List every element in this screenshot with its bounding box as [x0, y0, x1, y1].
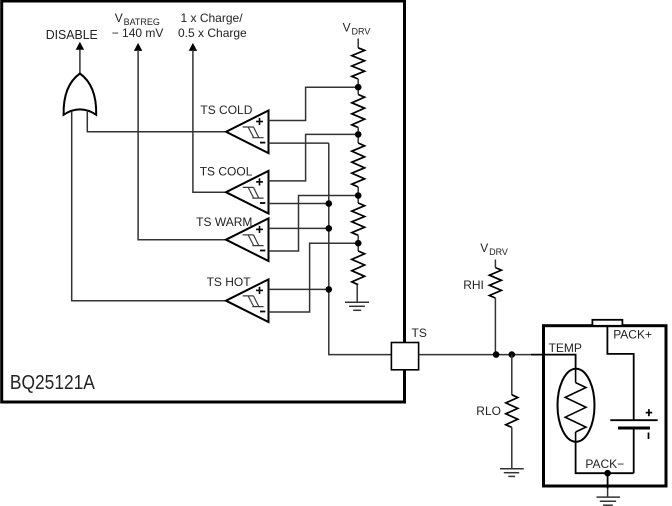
wire VDRV to ladder	[357, 39, 359, 48]
svg-text:DRV: DRV	[352, 27, 371, 37]
label 1 x Charge / 0.5 x Charge	[178, 11, 247, 40]
svg-text:BQ25121A: BQ25121A	[10, 372, 96, 394]
resistor RLO	[506, 395, 518, 428]
wire PACK- to ground	[607, 473, 609, 497]
wire R2 to tap2	[357, 128, 359, 144]
VBATREG arrow	[134, 43, 142, 51]
battery plus marking	[646, 409, 653, 416]
node TS sense / TS COOL - junction	[326, 200, 333, 207]
comparator TS WARM	[226, 218, 269, 261]
ground (ladder)	[345, 302, 369, 310]
or-gate U1	[64, 74, 97, 115]
DISABLE output arrow	[76, 42, 84, 50]
label TS	[412, 326, 427, 340]
wire OR right input stub down to TS COLD output	[87, 111, 226, 132]
label TS HOT	[207, 275, 252, 289]
wire VDRV to RHI	[494, 260, 496, 268]
svg-text:V: V	[115, 11, 123, 25]
node TS/RHI junction	[493, 351, 500, 358]
wire TS COOL + input to ladder tap 2	[269, 134, 359, 181]
label DISABLE	[46, 28, 98, 42]
wire OR left input stub down to TS HOT output	[72, 112, 226, 301]
wire VBATREG arrow down to TS WARM output	[138, 50, 226, 240]
thermistor zigzag element	[565, 369, 586, 442]
svg-text:0.5 x Charge: 0.5 x Charge	[178, 26, 247, 40]
wire TS WARM + input to TS sense line	[269, 227, 329, 229]
comparator TS COOL	[226, 171, 269, 214]
thermistor RT (ellipse)	[558, 369, 595, 442]
label PACK+	[613, 328, 652, 342]
wire TS COLD + input to ladder tap 1	[269, 87, 359, 120]
svg-text:V: V	[343, 21, 351, 35]
svg-text:PACK−: PACK−	[585, 457, 624, 471]
wire TS sense line down to TS pin	[329, 143, 392, 355]
wire RLO to ground	[511, 427, 513, 468]
svg-text:RLO: RLO	[476, 404, 501, 418]
battery cell BT1	[610, 420, 657, 473]
svg-text:V: V	[480, 241, 488, 255]
wire R3 to tap3	[357, 187, 359, 203]
wire TS HOT + input to TS sense line	[269, 288, 329, 290]
resistor ladder R5	[352, 251, 365, 285]
label TS COLD	[200, 103, 252, 117]
PACK+ terminal tab	[592, 320, 622, 326]
svg-text:DISABLE: DISABLE	[46, 28, 98, 42]
svg-text:TS COLD: TS COLD	[200, 103, 252, 117]
wire thermistor bottom to PACK- rail	[576, 442, 634, 473]
svg-text:TS HOT: TS HOT	[207, 275, 252, 289]
resistor ladder R3	[352, 143, 365, 187]
wire R5 to ground	[356, 285, 358, 303]
node ladder tap 1	[355, 84, 362, 91]
battery minus marking	[648, 433, 650, 440]
resistor ladder R2	[352, 95, 365, 128]
ground (pack)	[597, 497, 621, 505]
wire RHI to TS node	[494, 298, 496, 355]
wire charge arrow down to TS COOL output	[193, 50, 226, 192]
node ladder tap 4	[355, 240, 362, 247]
resistor ladder R4	[352, 203, 365, 235]
node TS/RLO junction	[509, 351, 516, 358]
battery pack box	[544, 326, 667, 486]
label VBATREG - 140 mV	[112, 11, 164, 40]
wire PACK+ to battery positive	[607, 327, 633, 420]
svg-text:TS COOL: TS COOL	[200, 165, 253, 179]
wire TS pin to battery pack	[419, 355, 576, 369]
wire TS HOT - input to ladder tap 4	[269, 243, 359, 312]
wire R1 to tap1	[357, 79, 359, 95]
resistor ladder R1	[352, 48, 365, 79]
BQ25121A IC boundary box	[2, 1, 405, 402]
wire R4 to tap4	[357, 235, 359, 251]
svg-text:TEMP: TEMP	[549, 341, 582, 355]
label VDRV (RHI top)	[480, 241, 508, 257]
label RLO	[476, 404, 501, 418]
node TS sense / TS HOT + junction	[326, 286, 333, 293]
label VDRV (ladder top)	[343, 21, 371, 37]
label PACK-	[585, 457, 624, 471]
label TEMP	[549, 341, 582, 355]
charge-rate arrow	[189, 43, 197, 51]
wire TS COOL - input to TS sense line	[269, 203, 329, 205]
ground (RLO)	[500, 469, 524, 477]
svg-text:− 140 mV: − 140 mV	[112, 26, 164, 40]
node PACK- junction	[604, 470, 611, 477]
comparator TS HOT	[226, 279, 269, 322]
svg-text:TS WARM: TS WARM	[196, 215, 252, 229]
svg-text:RHI: RHI	[463, 278, 484, 292]
node ladder tap 2	[355, 131, 362, 138]
label TS COOL	[200, 165, 253, 179]
label BQ25121A	[10, 372, 96, 394]
wire TS COLD - input to TS sense line	[269, 142, 329, 144]
svg-text:DRV: DRV	[489, 247, 508, 257]
resistor RHI	[489, 268, 501, 298]
label RHI	[463, 278, 484, 292]
wire TS WARM - input to ladder tap 3	[269, 196, 359, 252]
TS pin square	[391, 343, 418, 370]
svg-text:PACK+: PACK+	[613, 328, 652, 342]
label TS WARM	[196, 215, 252, 229]
comparator TS COLD	[226, 111, 269, 154]
svg-text:TS: TS	[412, 326, 427, 340]
wire RLO top	[511, 355, 513, 395]
wire OR output to DISABLE arrow	[79, 49, 81, 74]
node TS sense / TS WARM + junction	[326, 225, 333, 232]
svg-text:1 x Charge/: 1 x Charge/	[181, 11, 244, 25]
node ladder tap 3	[355, 192, 362, 199]
